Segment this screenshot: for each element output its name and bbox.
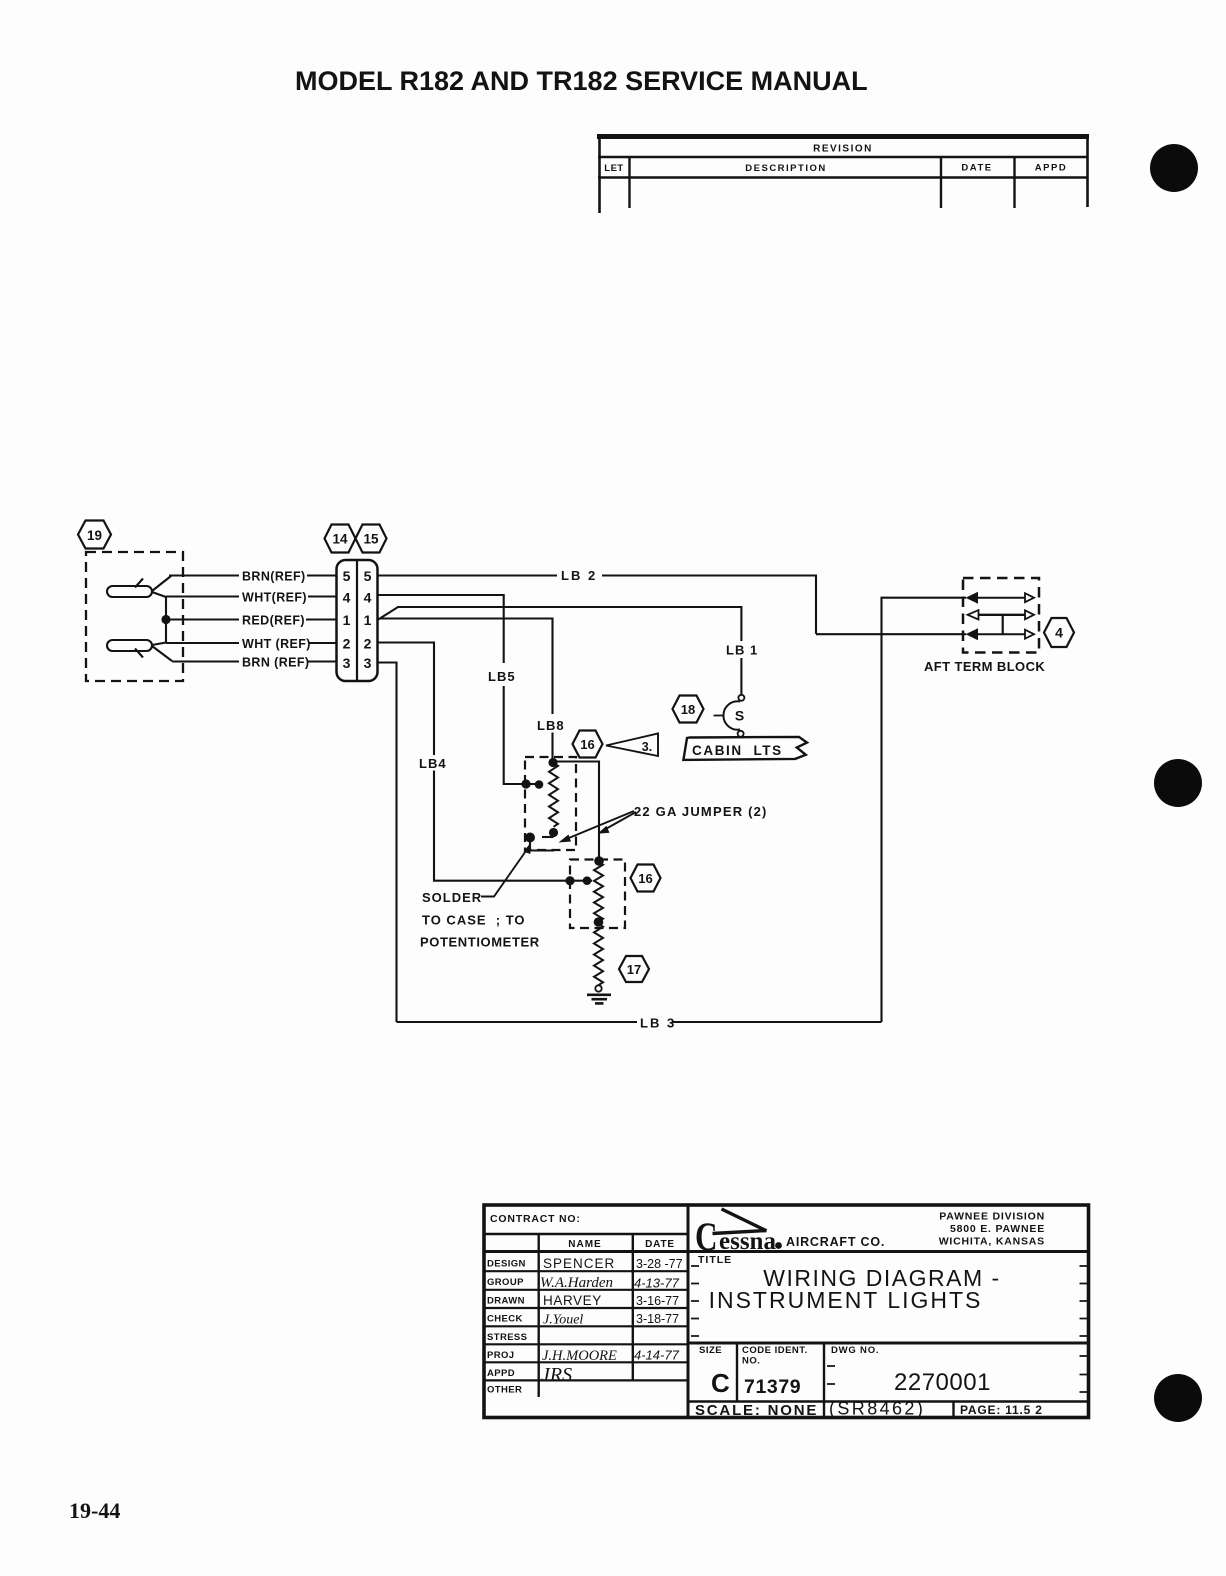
wire RED to label <box>166 618 239 620</box>
svg-text:4: 4 <box>364 590 372 606</box>
lamp twist tick upper <box>135 579 143 588</box>
junction node R1 left terminal inner <box>535 780 544 789</box>
wire WHT top to label <box>166 595 239 597</box>
svg-text:WHT(REF): WHT(REF) <box>242 591 307 605</box>
svg-text:DATE: DATE <box>961 163 992 174</box>
aft term block row 3 left terminal (filled) <box>966 628 979 640</box>
svg-text:STRESS: STRESS <box>487 1332 527 1343</box>
junction node on RED common bus <box>161 615 170 624</box>
svg-text:BRN(REF): BRN(REF) <box>242 570 306 584</box>
hexagon callout 16 (lower) <box>631 865 661 892</box>
aft term block dashed enclosure <box>963 578 1039 653</box>
title cell left zone ticks <box>691 1266 699 1336</box>
wire LB3 right segment <box>672 1021 882 1023</box>
scale/page divider <box>952 1402 954 1418</box>
connector block J14/J15 outline <box>337 560 378 681</box>
aft term block row 3 link <box>977 633 1026 635</box>
jumper leader arrowhead vertical <box>598 826 610 834</box>
svg-text:POTENTIOMETER: POTENTIOMETER <box>420 935 540 950</box>
svg-text:J.H.MOORE: J.H.MOORE <box>542 1348 617 1364</box>
svg-text:SIZE: SIZE <box>699 1345 722 1356</box>
svg-text:DESCRIPTION: DESCRIPTION <box>745 163 826 174</box>
approvals row line drawn <box>484 1307 688 1309</box>
title block outer border <box>484 1205 1089 1418</box>
svg-text:AIRCRAFT CO.: AIRCRAFT CO. <box>786 1235 885 1249</box>
hole punch dot bottom <box>1154 1374 1202 1422</box>
code/dwg divider <box>823 1343 825 1417</box>
svg-text:MODEL R182 AND TR182 SERVICE M: MODEL R182 AND TR182 SERVICE MANUAL <box>295 66 868 96</box>
svg-text:CODE IDENT.: CODE IDENT. <box>742 1345 808 1356</box>
aft term block row 3 right terminal <box>1025 630 1034 639</box>
instrument cluster dashed enclosure (item 19) <box>86 552 183 681</box>
hexagon callout 15 <box>356 525 387 553</box>
svg-text:71379: 71379 <box>744 1376 801 1398</box>
svg-text:LB 1: LB 1 <box>726 643 758 658</box>
svg-text:LB4: LB4 <box>419 756 447 771</box>
svg-text:APPD: APPD <box>487 1368 515 1379</box>
wire WHT top label to connector pin 4 <box>308 595 337 597</box>
wire BRN bottom label to connector pin 3 <box>308 660 337 662</box>
solder leader line <box>481 848 528 897</box>
svg-text:DWG NO.: DWG NO. <box>831 1345 879 1356</box>
svg-text:3.: 3. <box>642 740 652 754</box>
junction node R1 top <box>548 758 557 767</box>
wire from pin 4 to LB5 drop <box>378 595 504 663</box>
hexagon callout 16 (upper) <box>573 731 603 758</box>
aft term block row 2 left terminal <box>968 610 979 619</box>
svg-text:3: 3 <box>364 655 372 671</box>
svg-text:OTHER: OTHER <box>487 1385 522 1396</box>
svg-text:WICHITA, KANSAS: WICHITA, KANSAS <box>939 1236 1045 1248</box>
svg-text:3-28 -77: 3-28 -77 <box>636 1257 683 1271</box>
svg-text:DATE: DATE <box>645 1239 675 1250</box>
title cell right zone ticks <box>1080 1266 1088 1336</box>
hexagon callout 14 <box>325 525 356 553</box>
approvals row line design <box>484 1270 688 1272</box>
switch S upper terminal <box>738 695 744 701</box>
svg-text:APPD: APPD <box>1035 163 1067 174</box>
aft term block row 1 link <box>977 597 1026 599</box>
hole punch dot top <box>1150 144 1198 192</box>
title block main vertical divider <box>687 1205 690 1417</box>
common bus wire in item 19 <box>165 597 167 644</box>
svg-text:WHT (REF): WHT (REF) <box>242 637 311 651</box>
wire LB2 horizontal into aft term block row 3 <box>816 633 966 635</box>
approvals row line appd <box>484 1379 688 1381</box>
svg-text:LET: LET <box>604 163 623 174</box>
approvals name/date column divider <box>632 1234 634 1381</box>
wire LB2 from pin 5 <box>378 574 558 576</box>
svg-text:TO CASE ; TO: TO CASE ; TO <box>422 913 526 928</box>
junction node R1 element bottom <box>549 828 558 837</box>
wire from pin 3 down to LB3 <box>378 663 397 1023</box>
svg-text:JRS: JRS <box>541 1364 572 1386</box>
svg-text:AFT TERM BLOCK: AFT TERM BLOCK <box>924 659 1045 674</box>
junction node R1 left terminal outer <box>521 779 530 788</box>
ground symbol bar 2 <box>592 998 608 1001</box>
svg-text:PAWNEE DIVISION: PAWNEE DIVISION <box>939 1211 1045 1223</box>
wire BRN top label to connector pin 5 <box>307 574 337 576</box>
svg-text:5: 5 <box>364 568 372 584</box>
svg-text:S: S <box>735 708 744 724</box>
approvals label column divider <box>538 1234 540 1397</box>
svg-text:C: C <box>711 1368 730 1398</box>
lamp twist tick lower <box>135 649 143 658</box>
svg-text:2: 2 <box>343 636 351 652</box>
size code dwg row bottom line <box>688 1400 1088 1403</box>
hole punch dot middle <box>1154 759 1202 807</box>
approvals row line group <box>484 1289 688 1291</box>
svg-text:SCALE: NONE: SCALE: NONE <box>695 1402 818 1419</box>
potentiometer R1 resistive element <box>549 763 558 827</box>
revision table top border <box>597 134 1089 139</box>
junction node R2 left terminal inner <box>583 876 592 885</box>
wire LB3 riser to aft term block row 1 <box>882 598 967 1022</box>
svg-text:4-14-77: 4-14-77 <box>634 1348 680 1363</box>
hexagon callout 4 <box>1044 618 1074 647</box>
title cell bottom line <box>688 1342 1088 1345</box>
lamp L1 body <box>107 586 152 597</box>
switch S arc <box>723 701 740 729</box>
svg-text:19-44: 19-44 <box>69 1498 120 1523</box>
wire LB1 lower segment to switch <box>740 658 742 695</box>
full width separator under logo row <box>484 1250 1088 1253</box>
svg-text:3-18-77: 3-18-77 <box>636 1312 679 1326</box>
aft term block row 2 right terminal <box>1025 610 1034 619</box>
svg-text:RED(REF): RED(REF) <box>242 614 305 628</box>
resistor R3 to ground <box>594 924 603 985</box>
wire LB4 from pin 2 <box>378 643 435 756</box>
dwg number left bracket ticks <box>827 1366 835 1384</box>
switch S lower terminal <box>738 731 744 737</box>
svg-text:1: 1 <box>343 612 351 628</box>
svg-text:REVISION: REVISION <box>813 144 873 155</box>
revision table DESCRIPTION/DATE divider <box>940 157 942 208</box>
revision table header separator <box>598 156 1088 159</box>
wire RED label to connector pin 1 <box>306 618 337 620</box>
svg-text:C: C <box>695 1214 718 1259</box>
svg-text:BRN (REF): BRN (REF) <box>242 656 309 670</box>
revision table right border <box>1086 135 1089 207</box>
svg-text:4: 4 <box>1055 625 1063 641</box>
revision table LET column divider <box>628 157 630 208</box>
revision table DATE/APPD divider <box>1013 157 1015 208</box>
revision table left border <box>598 135 601 213</box>
svg-text:HARVEY: HARVEY <box>543 1293 602 1308</box>
svg-text:essna: essna <box>719 1228 776 1255</box>
wire LB5 lower segment to potentiometer R1 <box>504 686 541 784</box>
svg-text:NAME: NAME <box>568 1239 601 1250</box>
svg-text:SOLDER: SOLDER <box>422 890 482 905</box>
detail wedge pointer 3 <box>606 734 658 757</box>
svg-text:18: 18 <box>681 702 695 717</box>
size/code divider <box>736 1343 738 1402</box>
wire LB3 left segment <box>397 1021 638 1023</box>
wire LB8 lower segment to potentiometer R1 top <box>551 733 553 763</box>
cessna logotype dot <box>775 1242 782 1249</box>
svg-text:15: 15 <box>363 532 379 547</box>
jumper leader arrow to vertical jumper <box>603 812 636 831</box>
dwg cell right zone ticks <box>1080 1356 1088 1392</box>
lamp L2 lead to BRN wire <box>152 646 172 661</box>
svg-text:CONTRACT NO:: CONTRACT NO: <box>490 1213 581 1225</box>
svg-text:PAGE: 11.5 2: PAGE: 11.5 2 <box>960 1403 1043 1417</box>
svg-text:TITLE: TITLE <box>698 1254 732 1266</box>
jumper wire from R1 top to R2 top <box>554 762 600 862</box>
junction node R2 left terminal outer <box>565 876 574 885</box>
wire LB4 lower segment to potentiometer R2 <box>434 771 592 881</box>
junction node R2 top <box>594 856 604 866</box>
approvals row line check <box>484 1325 688 1327</box>
svg-text:INSTRUMENT LIGHTS: INSTRUMENT LIGHTS <box>709 1287 983 1313</box>
wire LB2 continuation to right drop <box>602 576 816 634</box>
svg-text:LB5: LB5 <box>488 669 516 684</box>
ground terminal ring <box>595 985 601 991</box>
aft term block row 1 right terminal <box>1025 593 1034 602</box>
svg-text:NO.: NO. <box>742 1356 760 1367</box>
svg-text:14: 14 <box>332 532 348 547</box>
svg-text:GROUP: GROUP <box>487 1277 524 1288</box>
potentiometer R2 dashed case <box>570 860 625 929</box>
approvals row line proj <box>484 1361 688 1363</box>
approvals row line stress <box>484 1343 688 1345</box>
R1 wiper tick <box>542 836 554 838</box>
aft term block row 2 link <box>978 614 1026 616</box>
junction node R1 case terminal <box>525 833 535 843</box>
wire LB8 from pin 1 <box>378 619 553 715</box>
wire BRN bottom to label <box>172 660 239 662</box>
cessna wing bar <box>713 1231 767 1234</box>
svg-text:LB 2: LB 2 <box>561 568 597 583</box>
svg-text:2270001: 2270001 <box>894 1369 991 1396</box>
svg-text:SPENCER: SPENCER <box>543 1256 615 1271</box>
solder leader arrowhead <box>524 844 531 855</box>
svg-text:22 GA JUMPER (2): 22 GA JUMPER (2) <box>634 804 768 819</box>
jumper leader arrowhead lower <box>559 835 572 843</box>
cessna wing diagonal <box>722 1209 767 1231</box>
svg-text:4-13-77: 4-13-77 <box>634 1276 680 1291</box>
revision table column header bottom line <box>598 176 1088 179</box>
wire BRN top to label <box>169 574 239 576</box>
lamp L2 body <box>107 640 152 651</box>
svg-text:PROJ: PROJ <box>487 1350 514 1361</box>
svg-text:CHECK: CHECK <box>487 1314 523 1325</box>
svg-text:DESIGN: DESIGN <box>487 1259 526 1270</box>
svg-text:LB 3: LB 3 <box>640 1016 676 1031</box>
svg-text:19: 19 <box>87 528 102 543</box>
svg-text:W.A.Harden: W.A.Harden <box>540 1275 613 1291</box>
svg-text:3: 3 <box>343 655 351 671</box>
potentiometer R2 resistive element <box>594 862 603 921</box>
contract cell bottom line <box>484 1233 688 1235</box>
lamp L1 lead to BRN wire <box>152 576 171 591</box>
svg-text:16: 16 <box>638 871 652 886</box>
svg-text:(SR8462): (SR8462) <box>829 1399 925 1419</box>
wire LB1 diagonal from pin 1 <box>378 607 742 641</box>
svg-text:2: 2 <box>364 636 372 652</box>
svg-text:4: 4 <box>343 590 351 606</box>
svg-text:1: 1 <box>364 612 372 628</box>
wire WHT bottom label to connector pin 2 <box>309 642 337 644</box>
aft term block row 1 left terminal (filled) <box>966 592 979 604</box>
svg-text:3-16-77: 3-16-77 <box>636 1294 679 1308</box>
svg-text:16: 16 <box>580 737 594 752</box>
potentiometer R1 dashed case <box>525 757 576 850</box>
wire WHT bottom to label <box>166 642 239 644</box>
hexagon callout 18 <box>673 696 704 723</box>
hexagon callout 19 <box>78 521 111 549</box>
svg-text:LB8: LB8 <box>537 718 565 733</box>
ground symbol bar 1 <box>587 993 611 996</box>
jumper wire at R1 bottom <box>530 838 554 851</box>
svg-text:CABIN LTS: CABIN LTS <box>692 743 783 758</box>
switch S actuator tick <box>714 715 724 717</box>
svg-text:5800 E. PAWNEE: 5800 E. PAWNEE <box>950 1223 1045 1235</box>
connector block center divider <box>356 560 358 681</box>
hexagon callout 17 <box>619 956 649 982</box>
lamp L1 lead to WHT wire <box>152 592 166 597</box>
junction node R2 bottom <box>594 917 604 927</box>
svg-text:5: 5 <box>343 568 351 584</box>
CABIN LTS destination banner <box>683 737 807 760</box>
lamp L2 lead to common bus <box>152 643 166 646</box>
svg-text:17: 17 <box>627 962 641 977</box>
aft term block tie between rows 2 and 3 <box>1002 615 1004 634</box>
svg-text:DRAWN: DRAWN <box>487 1296 525 1307</box>
jumper leader arrow to lower jumper <box>564 811 634 840</box>
svg-text:J.Youel: J.Youel <box>543 1313 583 1328</box>
ground symbol bar 3 <box>595 1002 604 1005</box>
